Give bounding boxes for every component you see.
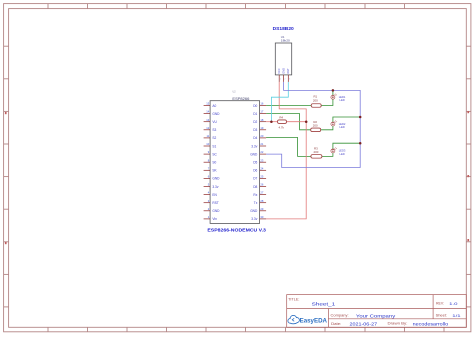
svg-text:EasyEDA: EasyEDA: [300, 317, 328, 324]
wire D4 to R3: [266, 138, 311, 157]
U2 pin 20 D4: [253, 134, 266, 140]
svg-text:OUT: OUT: [286, 68, 290, 74]
svg-text:16: 16: [260, 102, 263, 106]
svg-text:D2: D2: [253, 120, 257, 124]
svg-text:13: 13: [206, 118, 209, 122]
svg-text:200: 200: [313, 150, 318, 154]
svg-text:GND: GND: [212, 112, 220, 116]
wire LED2 cathode to GND net: [333, 117, 360, 122]
svg-text:VCC: VCC: [277, 68, 281, 74]
wire R4 to 3.3V net: [287, 121, 307, 123]
resistor R3: [311, 147, 322, 159]
U2 pin 3 RST: [204, 199, 219, 205]
svg-text:S1: S1: [212, 144, 216, 148]
wire D0 to R1: [266, 105, 311, 107]
svg-text:EN: EN: [212, 193, 217, 197]
svg-text:Sheet:: Sheet:: [436, 313, 448, 317]
title block: [287, 295, 467, 328]
sensor U1 DS18B20: [273, 26, 295, 75]
U2 pin 12 S3: [204, 126, 217, 132]
svg-text:26: 26: [260, 183, 263, 187]
node DQ/D2 junction: [270, 120, 273, 123]
svg-text:29: 29: [260, 207, 263, 211]
svg-text:1.0: 1.0: [449, 301, 459, 306]
svg-text:TITLE:: TITLE:: [288, 297, 299, 301]
svg-text:DS18B20: DS18B20: [273, 26, 295, 31]
LED LED2: [331, 121, 346, 130]
svg-text:28: 28: [260, 199, 263, 203]
U2 pin 4 EN: [204, 191, 218, 197]
module U2 ESP8266-NODEMCU V.3: [207, 91, 266, 233]
svg-text:ESP8266: ESP8266: [232, 96, 249, 101]
U2 pin 14 GND: [204, 110, 221, 116]
svg-text:Vin: Vin: [212, 217, 217, 221]
wire D2 to R4: [266, 121, 277, 123]
U2 pin 13 VU: [204, 118, 218, 124]
U2 pin 21 3.3v: [251, 142, 266, 148]
svg-text:Company:: Company:: [331, 314, 349, 318]
U1 pin 3 OUT: [286, 68, 290, 82]
U2 pin 26 D8: [253, 183, 266, 189]
wire LED3 cathode to GND net: [333, 143, 360, 149]
svg-text:11: 11: [207, 134, 210, 138]
U2 pin 22 GND: [250, 150, 266, 156]
svg-text:D6: D6: [253, 169, 257, 173]
svg-text:14: 14: [206, 110, 209, 114]
svg-text:12: 12: [206, 126, 209, 130]
svg-text:GND: GND: [212, 177, 220, 181]
svg-text:GND: GND: [250, 152, 258, 156]
svg-text:D8: D8: [253, 185, 257, 189]
U2 pin 19 D3: [253, 126, 266, 132]
node LED2/GND junction: [359, 116, 362, 119]
U2 pin 6 GND: [204, 175, 221, 181]
svg-text:4.7k: 4.7k: [278, 125, 284, 129]
svg-text:18b20: 18b20: [281, 38, 291, 42]
U2 pin 23 D5: [253, 158, 266, 164]
U1 pin 1 VCC: [277, 68, 281, 82]
svg-text:25: 25: [260, 175, 263, 179]
svg-text:VU: VU: [212, 120, 217, 124]
U2 pin 8 S0: [204, 158, 217, 164]
svg-text:LED: LED: [340, 125, 345, 129]
U2 pin 5 3.3v: [204, 183, 219, 189]
U2 pin 29 GND: [250, 207, 266, 213]
U2 pin 7 SK: [204, 166, 218, 172]
svg-text:24: 24: [260, 166, 263, 170]
svg-text:23: 23: [260, 158, 263, 162]
U2 pin 27 Rx: [253, 191, 266, 197]
U2 pin 10 S1: [204, 142, 217, 148]
svg-text:D1: D1: [253, 112, 257, 116]
svg-text:17: 17: [260, 110, 263, 114]
node LED3/GND junction: [359, 142, 362, 145]
wire D1 to R2: [266, 114, 311, 130]
svg-text:REV:: REV:: [436, 302, 444, 306]
svg-text:D5: D5: [253, 161, 257, 165]
svg-text:19: 19: [260, 126, 263, 130]
U2 pin 25 D7: [253, 175, 266, 181]
wire LED1 cathode to GND net: [332, 90, 334, 95]
svg-text:D4: D4: [253, 136, 257, 140]
svg-text:S3: S3: [212, 128, 216, 132]
svg-text:GND: GND: [212, 209, 220, 213]
U2 pin 24 D6: [253, 166, 266, 172]
wire R3 to LED3 anode: [322, 153, 333, 157]
svg-text:ESP8266-NODEMCU V.3: ESP8266-NODEMCU V.3: [207, 227, 266, 232]
U2 pin 28 Tx: [254, 199, 266, 205]
wire U1 DQ to D2 node: [271, 82, 288, 122]
svg-text:LED: LED: [340, 152, 345, 156]
U2 pin 2 GND: [204, 207, 221, 213]
resistor R2: [311, 120, 321, 132]
svg-text:Rx: Rx: [253, 193, 257, 197]
svg-text:3.3v: 3.3v: [251, 144, 257, 148]
svg-text:S0: S0: [212, 161, 216, 165]
svg-text:Date:: Date:: [331, 322, 341, 326]
resistor R4: [278, 116, 287, 130]
svg-text:2: 2: [284, 79, 285, 81]
U2 pin 16 D0: [253, 102, 266, 108]
svg-text:2021-06-27: 2021-06-27: [350, 322, 378, 327]
U2 pin 15 A0: [204, 102, 217, 108]
node LED1/GND junction: [332, 89, 335, 92]
svg-text:A0: A0: [212, 104, 216, 108]
svg-text:1: 1: [280, 79, 281, 81]
svg-text:necodesarrollo: necodesarrollo: [413, 322, 449, 327]
U2 pin 11 S2: [204, 134, 217, 140]
U2 pin 9 SC: [204, 150, 218, 156]
svg-text:10: 10: [206, 142, 209, 146]
svg-text:22: 22: [260, 150, 263, 154]
svg-text:3: 3: [289, 79, 290, 81]
svg-text:GND: GND: [250, 209, 258, 213]
svg-text:D3: D3: [253, 128, 257, 132]
svg-text:200: 200: [313, 98, 318, 102]
wire U1 VCC to 3.3V pin30: [266, 82, 306, 219]
svg-text:S2: S2: [212, 136, 216, 140]
U2 pin 30 3.3v: [251, 215, 266, 221]
svg-text:3.3v: 3.3v: [212, 185, 218, 189]
node R4/3.3V junction: [305, 120, 308, 123]
U1 pin 2 GND: [282, 68, 286, 82]
svg-text:LED: LED: [340, 98, 345, 102]
svg-text:Your Company: Your Company: [356, 313, 397, 318]
resistor R1: [311, 95, 321, 108]
svg-text:20: 20: [260, 134, 263, 138]
svg-text:15: 15: [206, 102, 209, 106]
wire R1 to LED1 anode: [321, 99, 333, 105]
LED LED1: [331, 94, 346, 103]
wire R2 to LED2 anode: [321, 126, 333, 130]
wire U1 GND to pin22 GND: [266, 82, 360, 168]
svg-text:R4: R4: [279, 116, 283, 120]
svg-text:18: 18: [260, 118, 263, 122]
U2 pin 17 D1: [253, 110, 266, 116]
svg-text:27: 27: [260, 191, 263, 195]
LED LED3: [331, 147, 346, 156]
svg-text:Sheet_1: Sheet_1: [312, 301, 337, 306]
svg-text:Drawn By:: Drawn By:: [388, 322, 408, 326]
svg-text:21: 21: [260, 142, 263, 146]
svg-text:RST: RST: [212, 201, 218, 205]
U2 pin 18 D2: [253, 118, 266, 124]
svg-text:1/1: 1/1: [452, 313, 460, 318]
svg-text:D7: D7: [253, 177, 257, 181]
svg-text:GND: GND: [282, 68, 286, 74]
svg-text:Tx: Tx: [254, 201, 258, 205]
svg-text:3.3v: 3.3v: [251, 217, 257, 221]
svg-text:D0: D0: [253, 104, 257, 108]
svg-text:SC: SC: [212, 152, 217, 156]
svg-text:30: 30: [260, 215, 263, 219]
svg-text:200: 200: [313, 123, 318, 127]
U2 pin 1 Vin: [204, 215, 218, 221]
